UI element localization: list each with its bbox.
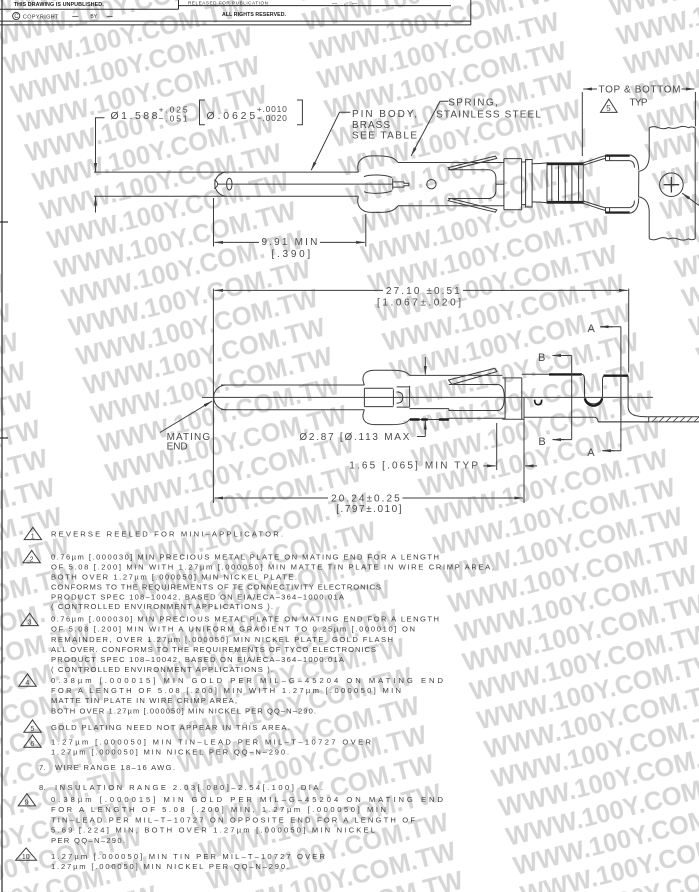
dim 9.91 line left part (215, 241, 260, 243)
section line A (620, 327, 622, 451)
wire barrel thick bottom edge (547, 201, 583, 204)
carrier strip wavy bottom edge (649, 238, 695, 240)
formed transition top (583, 156, 605, 166)
svg-text:7.: 7. (39, 763, 45, 772)
svg-text:[.390]: [.390] (272, 249, 311, 260)
pilot hole circle with cross (660, 173, 684, 197)
crimp wing blade (edge-on) (449, 368, 497, 384)
small cutoff notch arc (535, 400, 542, 405)
foot hatch (652, 417, 699, 422)
carrier strip right edge (694, 128, 696, 239)
inner bottom line (410, 408, 449, 410)
inner pin nib bar (392, 179, 394, 190)
pin tip dome (215, 172, 226, 196)
dim TOP-BOTTOM arrows (583, 88, 597, 90)
section A top arrow (601, 326, 621, 328)
insulation wing bottom thick edge (606, 211, 630, 213)
inner contour rounded right rectangle (449, 385, 505, 411)
svg-text:10: 10 (22, 854, 30, 861)
big right bracket (297, 100, 302, 125)
svg-text:—: — (72, 14, 78, 20)
svg-text:TOP & BOTTOM: TOP & BOTTOM (599, 85, 681, 96)
svg-text:FOR A LENGTH OF 5.08 [.200] MI: FOR A LENGTH OF 5.08 [.200] MIN WITH 1.2… (51, 686, 401, 695)
flag triangle 5 (24, 720, 41, 732)
body upper lobe (358, 156, 398, 172)
svg-text:COPYRIGHT: COPYRIGHT (23, 15, 59, 21)
pin rounded tip (214, 385, 226, 410)
nib horizontals and vertical (397, 386, 410, 407)
upper wire-barrel wing blade (448, 156, 497, 170)
inner pin nib (393, 182, 409, 187)
rear section top/bottom lines (522, 374, 595, 417)
body hole (427, 180, 436, 189)
neck to wire barrel bottom (532, 201, 547, 204)
dim 27.10 right extension (628, 289, 630, 373)
dim 9.91 left extension (213, 198, 215, 247)
wire barrel bottom serrated edge (409, 419, 449, 421)
svg-text:C: C (14, 14, 19, 20)
lower wire-barrel wing blade (448, 198, 497, 212)
svg-text:9: 9 (25, 800, 29, 807)
svg-text:SPRING,: SPRING, (448, 97, 498, 108)
insulation wing bottom band (606, 208, 630, 214)
svg-text:−.051: −.051 (159, 114, 188, 124)
insulation wing top band (606, 155, 630, 161)
body upper inner arc (364, 175, 392, 178)
body top line (398, 162, 504, 164)
svg-text:27.10 ±0.51: 27.10 ±0.51 (386, 286, 460, 297)
dim TOP-BOTTOM left extension line (581, 92, 583, 156)
svg-text:( CONTROLLED ENVIRONMENT APPLI: ( CONTROLLED ENVIRONMENT APPLICATIONS ). (51, 602, 273, 611)
svg-text:4: 4 (25, 680, 29, 687)
svg-text:3: 3 (28, 619, 32, 626)
middle line to barrel (496, 183, 504, 185)
pin shaft bottom line (94, 195, 358, 197)
copyright symbol (13, 12, 20, 19)
svg-text:A: A (588, 323, 596, 335)
flag triangle 4 (19, 674, 36, 686)
header title block (0, 0, 471, 25)
svg-text:6: 6 (30, 741, 34, 748)
thick plated top segment (549, 373, 582, 375)
pin shaft bottom line (221, 409, 364, 411)
svg-text:B: B (538, 436, 545, 448)
section B top arrow (553, 355, 572, 357)
leader MATING END (160, 404, 208, 433)
svg-text:—: — (107, 14, 113, 20)
svg-text:END: END (167, 442, 188, 453)
svg-text:TIN–LEAD PER MIL–T–10727 ON OP: TIN–LEAD PER MIL–T–10727 ON OPPOSITE END… (51, 815, 415, 824)
dim TOP-BOTTOM right extension line (694, 92, 696, 127)
pin oval hole (227, 178, 232, 190)
svg-text:PER QQ–N–290.: PER QQ–N–290. (51, 836, 125, 845)
svg-text:BOTH OVER 1.27µm [.000050] MIN: BOTH OVER 1.27µm [.000050] MIN NICKEL PL… (51, 573, 297, 582)
svg-text:1.27µm [.000050] MIN NICKEL PE: 1.27µm [.000050] MIN NICKEL PER QQ–N–290… (51, 748, 289, 757)
section A bottom arrow (603, 450, 621, 452)
svg-text:ALL OVER. CONFORMS TO THE REQU: ALL OVER. CONFORMS TO THE REQUIREMENTS O… (51, 645, 376, 654)
dim dia 1.588 leader corner (96, 118, 105, 171)
svg-text:8.: 8. (39, 783, 45, 792)
body lower lobe (358, 196, 398, 212)
dim dia 2.87 top arrow (424, 357, 426, 374)
formed transition bottom (583, 201, 605, 211)
dim 9.91 line right part (320, 241, 365, 243)
svg-text:A: A (587, 447, 595, 459)
svg-text:2: 2 (30, 557, 34, 564)
dim dia 2.87 foot (417, 436, 425, 438)
dim 9.91 right extension (365, 214, 367, 247)
svg-text:WIRE RANGE 18–16 AWG.: WIRE RANGE 18–16 AWG. (55, 763, 175, 772)
lobe verticals (364, 388, 393, 406)
svg-text:RELEASED FOR PUBLICATION: RELEASED FOR PUBLICATION (188, 1, 268, 6)
inner body U contour (448, 170, 496, 199)
svg-text:MATTE TIN PLATE IN WIRE CRIMP: MATTE TIN PLATE IN WIRE CRIMP AREA, (51, 696, 237, 705)
svg-text:PRODUCT SPEC 108–10042, BASED: PRODUCT SPEC 108–10042, BASED ON EIA/ECA… (51, 655, 345, 664)
svg-text:B: B (538, 352, 545, 364)
svg-text:— , —: — , — (332, 1, 357, 7)
lower lobe (363, 410, 410, 425)
centerline (202, 396, 653, 398)
bottom wing hook (630, 198, 639, 213)
svg-text:5: 5 (606, 104, 611, 113)
flag triangle 1 (24, 527, 41, 539)
carrier strip left edge with cutouts (639, 128, 650, 239)
dim dia 1.588 top arrow (95, 160, 97, 172)
border zone tick lower (0, 437, 8, 439)
svg-text:REMAINDER, OVER 1.27µm [.00005: REMAINDER, OVER 1.27µm [.000050] MIN NIC… (51, 635, 393, 644)
serration thick marks (410, 418, 449, 421)
pin shaft top line (94, 171, 358, 173)
section line B (571, 356, 573, 440)
svg-text:1: 1 (31, 533, 35, 540)
flag triangle 2 (23, 550, 40, 562)
plateau thick top (603, 375, 628, 377)
svg-text:1.27µm [.000050] MIN NICKEL PE: 1.27µm [.000050] MIN NICKEL PER QQ–N–290… (51, 862, 289, 871)
dim 27.10 line (214, 289, 383, 291)
svg-text:BOTH OVER 1.27µm [.000050] MIN: BOTH OVER 1.27µm [.000050] MIN NICKEL PE… (51, 707, 316, 716)
pin shaft top line (221, 384, 364, 386)
svg-text:SEE TABLE: SEE TABLE (352, 131, 417, 142)
flag triangle 5 (601, 99, 618, 112)
top wing hook (630, 155, 639, 170)
neck to wire barrel top (532, 162, 547, 165)
outer bottom edge (449, 417, 505, 419)
svg-text:5.69 [.224] MIN, BOTH OVER 1.2: 5.69 [.224] MIN, BOTH OVER 1.27µm [.0000… (51, 826, 375, 835)
dim dia 2.87 bottom arrow (424, 421, 426, 437)
pin inner middle line (218, 183, 393, 185)
dim 1.65 left extension (496, 423, 498, 470)
svg-text:PIN BODY,: PIN BODY, (352, 109, 417, 120)
rear barrel section (502, 378, 523, 419)
dim 1.65 arrows (483, 465, 495, 467)
svg-text:CONFORMS TO THE REQUIREMENTS O: CONFORMS TO THE REQUIREMENTS OF TE CONNE… (51, 583, 381, 592)
page left border (1, 0, 3, 892)
svg-text:BY: BY (90, 14, 97, 20)
flag triangle 3 (21, 613, 38, 625)
body bottom line (398, 205, 504, 207)
carrier foot strip (598, 417, 699, 422)
svg-text:THIS DRAWING IS UNPUBLISHED.: THIS DRAWING IS UNPUBLISHED. (14, 2, 105, 8)
svg-text:TYP: TYP (630, 98, 648, 109)
wire barrel serrations (552, 165, 579, 201)
lower lobe inner line (364, 406, 393, 408)
leader arrow to pilot hole (682, 193, 699, 205)
transition barrel section (504, 159, 522, 210)
big left bracket (200, 100, 205, 125)
leader PIN BODY (313, 112, 351, 167)
bottom step to foot (594, 417, 648, 422)
svg-text:5: 5 (30, 726, 34, 733)
upper lobe inner line (364, 387, 393, 389)
step vertical at barrel end (448, 409, 450, 420)
svg-text:ALL RIGHTS RESERVED.: ALL RIGHTS RESERVED. (222, 12, 287, 18)
wire barrel thick top edge (547, 162, 583, 165)
dim dia 1.588 bottom arrow (95, 197, 97, 213)
retention ring (522, 160, 533, 208)
flag triangle 9 (18, 794, 35, 806)
body lower inner arc (364, 191, 392, 194)
wire barrel outline (547, 162, 583, 203)
svg-text:−.0020: −.0020 (257, 113, 287, 123)
carrier strip wavy top edge (649, 126, 695, 128)
section B bottom arrow (553, 439, 572, 441)
insulation wing top thick edge (606, 155, 630, 157)
svg-text:STAINLESS STEEL: STAINLESS STEEL (436, 110, 541, 121)
carrier cutoff U dip (582, 374, 606, 404)
svg-text:( CONTROLLED ENVIRONMENT APPLI: ( CONTROLLED ENVIRONMENT APPLICATIONS ). (51, 665, 273, 674)
svg-text:PRODUCT SPEC 108–10042, BASED: PRODUCT SPEC 108–10042, BASED ON EIA/ECA… (51, 593, 345, 602)
inner pin D-end (397, 392, 403, 403)
U dip thick bottom (585, 398, 602, 405)
body top line (410, 374, 503, 376)
flag triangle 6 (24, 735, 41, 747)
dim 20.24 line (214, 497, 328, 499)
dim 1.65 / 20.24 right extension (523, 398, 525, 504)
svg-text:[.797±.010]: [.797±.010] (336, 504, 402, 515)
drop edge to foot (628, 376, 646, 417)
dim 27.10 left extension line (tip, shared with 20.24) (212, 289, 214, 503)
upper lobe (363, 370, 410, 385)
flag triangle 10 (16, 848, 37, 860)
pin tip notch (214, 180, 218, 189)
svg-text:BRASS: BRASS (352, 120, 390, 131)
border zone tick upper (0, 221, 8, 223)
leader SPRING (413, 101, 449, 153)
